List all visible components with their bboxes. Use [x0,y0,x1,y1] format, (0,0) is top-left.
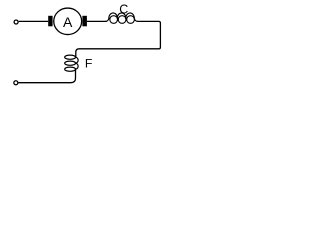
svg-text:F: F [85,57,93,71]
wire: coil F to bottom-left terminal [18,69,75,83]
svg-text:A: A [63,14,73,30]
brush (right) of armature [82,16,87,26]
brush (left) of armature [48,16,52,26]
wire: right brush to series coil C [87,20,107,22]
terminal T1 (top input, open circle) [14,20,18,24]
inductor C (series/commutating field coil) [105,13,137,23]
svg-text:C: C [119,2,128,16]
terminal T2 (bottom input, open circle) [14,81,18,85]
inductor F (shunt field coil) [65,55,78,71]
armature A (motor circle) [54,8,82,35]
wire: coil C to top-right corner, down and left to coil F [76,21,161,57]
wire: terminal T1 to left brush [19,20,49,22]
